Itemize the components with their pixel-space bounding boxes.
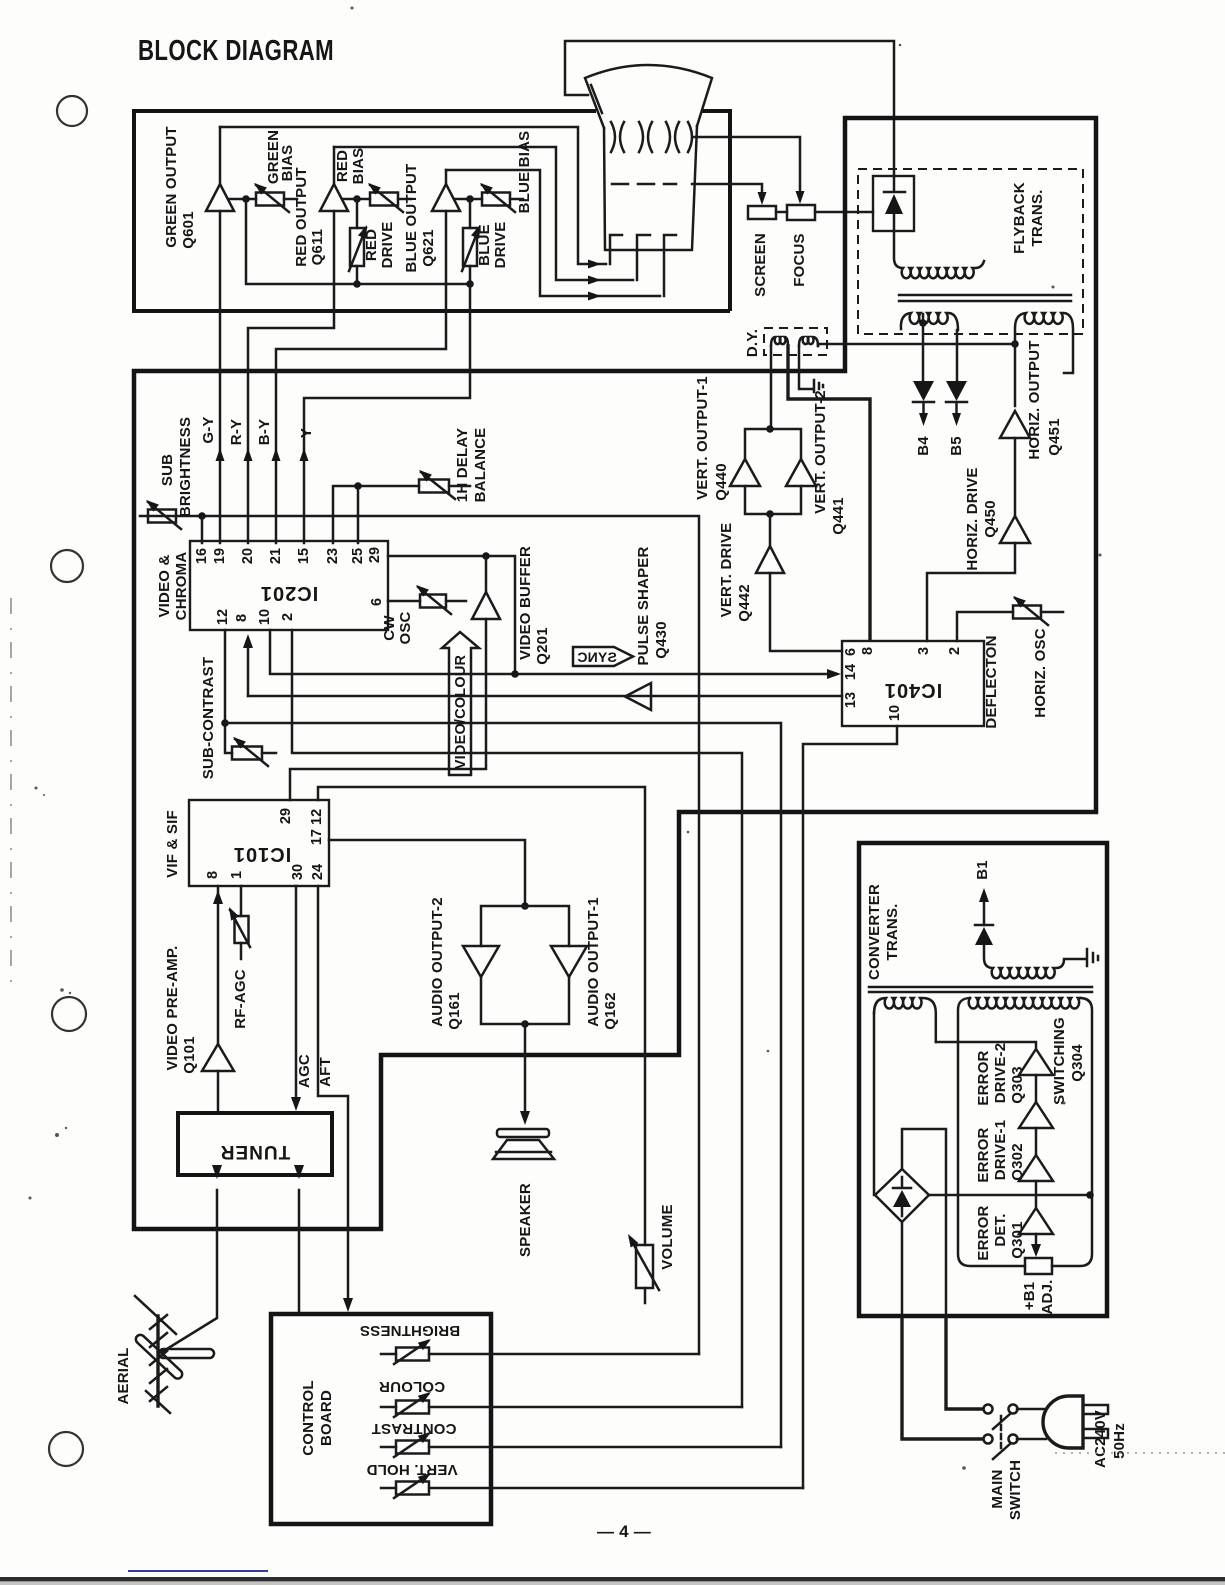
svg-text:AFT: AFT	[317, 1057, 334, 1087]
bridge rectifier diamond	[875, 1169, 929, 1222]
resistor VOLUME pot	[624, 1232, 659, 1303]
switch gang dashed link	[1000, 1416, 1003, 1451]
svg-text:Q621: Q621	[420, 229, 437, 267]
hole punch upper-middle	[51, 550, 83, 582]
svg-text:ERROR: ERROR	[975, 1127, 992, 1182]
wire to plug bottom	[1017, 1438, 1046, 1441]
coil flyback secondary right	[1015, 313, 1073, 373]
wire DY bus to flyback	[818, 343, 1015, 346]
svg-text:SWITCH: SWITCH	[1007, 1460, 1024, 1520]
wire flyback secondary to B5	[956, 330, 959, 380]
svg-text:SUB: SUB	[159, 454, 176, 486]
wire bridge right to feedback	[929, 1194, 1090, 1197]
node buffer top junction	[482, 552, 490, 560]
resistor SUB-CONTRAST pot	[230, 734, 276, 766]
svg-text:VERT. OUTPUT-2: VERT. OUTPUT-2	[812, 390, 829, 514]
svg-text:2: 2	[280, 613, 296, 621]
wire yoke-h right bus	[817, 344, 820, 346]
svg-text:6: 6	[369, 598, 385, 606]
wire IC101 pin8 input	[217, 886, 220, 1044]
aerial antenna symbol	[134, 1296, 214, 1413]
label AC240V 50Hz	[1092, 1410, 1128, 1468]
svg-text:12: 12	[215, 609, 231, 625]
label RED OUTPUT Q611	[293, 167, 326, 267]
scan artifact blue line bottom-left	[128, 1570, 268, 1572]
arrowhead aerial into tuner	[212, 1165, 222, 1179]
switch contact pair top	[984, 1405, 1018, 1430]
ground symbol yoke	[814, 380, 823, 392]
svg-text:ADJ.: ADJ.	[1039, 1280, 1056, 1315]
diode B1 rectifier	[975, 925, 993, 945]
svg-text:29: 29	[278, 808, 294, 824]
svg-text:IC401: IC401	[884, 679, 942, 701]
svg-text:VOLUME: VOLUME	[659, 1204, 676, 1269]
arrowhead AGC into tuner	[291, 1097, 301, 1111]
node audio input junction	[521, 902, 529, 910]
wire colour bus IC201 pin2	[292, 630, 742, 1407]
arrowhead into SCREEN	[758, 192, 767, 205]
svg-text:8: 8	[205, 871, 221, 879]
CRT internal dashed grid line	[612, 183, 676, 186]
amplifier Q201 VIDEO BUFFER	[472, 592, 500, 619]
svg-text:DRIVE: DRIVE	[492, 222, 509, 269]
svg-text:CONTRAST: CONTRAST	[372, 1420, 457, 1437]
amplifier Q450 HORIZ. DRIVE	[1000, 516, 1030, 543]
wire AC line 2	[902, 1316, 983, 1439]
wire AC line 1	[946, 1316, 983, 1409]
wire sub-brightness bus	[140, 516, 699, 1354]
svg-text:B1: B1	[974, 860, 991, 880]
hole punch top	[57, 96, 87, 126]
wire Q601 output up	[219, 127, 222, 184]
svg-text:— 4 —: — 4 —	[597, 1522, 651, 1541]
diode B4	[913, 381, 934, 426]
svg-text:24: 24	[310, 864, 326, 880]
resistor RF-AGC pot	[225, 886, 250, 959]
svg-text:B5: B5	[948, 436, 965, 456]
node vert output bottom	[766, 510, 774, 518]
wire IC201 pin29 to buffer	[388, 556, 515, 674]
svg-text:Q303: Q303	[1009, 1066, 1026, 1104]
wire audio top bar	[481, 906, 569, 946]
CRT flare outline	[585, 65, 712, 128]
svg-text:BLOCK DIAGRAM: BLOCK DIAGRAM	[138, 35, 334, 67]
arrowhead into IC201 pin8	[247, 640, 250, 696]
resistor BRIGHTNESS pot	[381, 1335, 699, 1364]
switch contact pair bottom	[984, 1435, 1018, 1460]
wire junction down to horiz output	[1014, 344, 1017, 406]
svg-text:Q301: Q301	[1009, 1221, 1026, 1259]
resistor 1H DELAY BALANCE pot	[416, 467, 470, 499]
svg-text:BALANCE: BALANCE	[472, 428, 489, 503]
svg-text:Q161: Q161	[446, 992, 463, 1030]
svg-text:ERROR: ERROR	[975, 1050, 992, 1105]
svg-text:BLUE BIAS: BLUE BIAS	[516, 131, 533, 214]
svg-text:BRIGHTNESS: BRIGHTNESS	[360, 1322, 460, 1339]
svg-text:Q201: Q201	[534, 627, 551, 665]
coil converter feedback winding	[969, 998, 1081, 1009]
arrowhead into speaker	[520, 1111, 530, 1125]
svg-text:FLYBACK: FLYBACK	[1011, 182, 1028, 254]
resistor SCREEN control	[748, 206, 776, 219]
svg-text:AUDIO OUTPUT-1: AUDIO OUTPUT-1	[585, 897, 602, 1026]
svg-text:BIAS: BIAS	[350, 148, 367, 185]
label RED DRIVE	[363, 222, 396, 269]
svg-text:VIDEO BUFFER: VIDEO BUFFER	[517, 546, 534, 660]
wire CRT screen line	[692, 184, 762, 196]
banner SYNC flag	[573, 647, 633, 666]
svg-text:B-Y: B-Y	[256, 419, 273, 445]
IC IC101	[189, 800, 329, 886]
node flyback horiz junction	[1011, 340, 1019, 348]
svg-text:Q430: Q430	[653, 621, 670, 659]
label ERROR DRIVE-1 Q302	[975, 1120, 1026, 1183]
label FLYBACK TRANS.	[1011, 182, 1046, 254]
resistor COLOUR pot	[381, 1388, 742, 1417]
wire primary left to bridge	[873, 1013, 876, 1195]
svg-text:B4: B4	[915, 436, 932, 456]
svg-text:10: 10	[257, 609, 273, 625]
wire IC101 pin17 to audio output	[329, 840, 525, 906]
wire Y	[304, 284, 470, 543]
wire tap to B4	[922, 314, 925, 380]
CONTROL BOARD box	[271, 1314, 491, 1524]
label ERROR DET. Q301	[975, 1205, 1026, 1260]
wire 1H delay bus	[333, 486, 419, 543]
svg-text:BOARD: BOARD	[318, 1390, 335, 1446]
wire Q101 input from tuner	[217, 1071, 220, 1113]
label ERROR DRIVE-2 Q303	[975, 1043, 1026, 1106]
amplifier Q162 AUDIO OUTPUT-1	[551, 946, 587, 977]
resistor GREEN BIAS pot	[251, 180, 297, 212]
wire Q601 tip to bias	[229, 198, 256, 201]
svg-text:AUDIO OUTPUT-2: AUDIO OUTPUT-2	[429, 897, 446, 1026]
node sync junction	[511, 670, 519, 678]
svg-text:SCREEN: SCREEN	[752, 233, 769, 297]
wire buffer output up	[485, 556, 488, 592]
wire Q611 tip to bias	[343, 198, 370, 201]
wire green feedback down	[246, 199, 470, 284]
wire G-Y	[219, 211, 222, 543]
amplifier Q621 BLUE OUTPUT	[432, 184, 460, 211]
wire vert drive input from IC401 pin6	[770, 573, 842, 651]
wire CRT grid to focus	[694, 137, 800, 197]
arrowhead Y	[300, 448, 309, 461]
wire sync bus IC201 pin10 to IC401 pin14	[270, 630, 836, 674]
svg-text:AC240V: AC240V	[1092, 1410, 1109, 1468]
diode EHT rectifier	[884, 176, 905, 231]
svg-text:CONTROL: CONTROL	[300, 1380, 317, 1456]
svg-text:IC101: IC101	[233, 843, 291, 865]
wire contrast bus	[225, 723, 781, 1447]
svg-text:Q441: Q441	[830, 497, 847, 535]
svg-text:VIDEO/COLOUR: VIDEO/COLOUR	[453, 654, 469, 769]
node pin16 junction	[198, 512, 206, 520]
resistor SUB BRIGHTNESS pot	[143, 497, 181, 529]
amplifier Q302 ERROR DRIVE-1	[1019, 1155, 1053, 1181]
coil converter primary	[874, 998, 936, 1042]
svg-text:Q601: Q601	[180, 211, 197, 249]
svg-text:VERT. HOLD: VERT. HOLD	[366, 1461, 457, 1478]
AC plug prong 2	[1083, 1429, 1108, 1438]
amplifier Q451 HORIZ. OUTPUT	[1000, 411, 1030, 438]
node red feedback bus	[353, 280, 361, 288]
label VIDEO BUFFER Q201	[517, 546, 551, 665]
svg-text:Q440: Q440	[713, 463, 730, 501]
TUNER box	[178, 1113, 332, 1175]
label GREEN OUTPUT Q601	[163, 126, 197, 249]
arrowhead green bus	[588, 260, 601, 269]
label HORIZ. OUTPUT Q451	[1026, 340, 1063, 459]
svg-text:GREEN OUTPUT: GREEN OUTPUT	[163, 126, 180, 248]
resistor BLUE DRIVE pot	[462, 199, 484, 284]
amplifier Q161 AUDIO OUTPUT-2	[463, 946, 499, 977]
scan artifact dotted line right	[1055, 1452, 1225, 1454]
wire Q450 input from IC401 pin3	[927, 543, 1015, 641]
label AUDIO OUTPUT-1 Q162	[585, 897, 619, 1029]
wire to speaker	[524, 1024, 527, 1118]
coil converter secondary top	[984, 945, 1086, 978]
wire feedback loop left side	[958, 998, 1025, 1266]
svg-text:Q611: Q611	[309, 229, 326, 266]
svg-text:CHROMA: CHROMA	[173, 552, 190, 621]
resistor CONTRAST pot	[381, 1428, 781, 1457]
label CONTROL BOARD	[300, 1380, 335, 1456]
wire green bus to CRT	[220, 127, 606, 264]
wire Q301 to Q302	[1035, 1181, 1038, 1208]
svg-text:Q450: Q450	[982, 500, 999, 538]
label VIDEO & CHROMA	[156, 552, 190, 621]
arrowhead R-Y	[244, 448, 253, 461]
svg-text:G-Y: G-Y	[200, 416, 217, 443]
wire bridge bottom to switch	[901, 1222, 904, 1316]
label VERT. DRIVE Q442	[718, 523, 753, 622]
svg-text:TUNER: TUNER	[220, 1141, 290, 1162]
svg-text:13: 13	[843, 692, 859, 708]
label 1H DELAY BALANCE	[454, 428, 489, 503]
svg-text:21: 21	[268, 548, 284, 564]
amplifier Q301 ERROR DET.	[1019, 1208, 1053, 1234]
svg-text:VIDEO PRE-AMP.: VIDEO PRE-AMP.	[164, 945, 181, 1070]
svg-text:BLUE OUTPUT: BLUE OUTPUT	[403, 164, 420, 273]
label VIDEO PRE-AMP. Q101	[164, 945, 198, 1073]
svg-text:AGC: AGC	[296, 1054, 313, 1088]
svg-text:VERT. OUTPUT-1: VERT. OUTPUT-1	[694, 376, 711, 500]
svg-text:1H DELAY: 1H DELAY	[454, 428, 471, 502]
label AUDIO OUTPUT-2 Q161	[429, 897, 463, 1029]
coil yoke vertical	[771, 337, 788, 346]
coil flyback EHT winding	[894, 231, 984, 278]
svg-text:DRIVE: DRIVE	[379, 222, 396, 269]
svg-text:DEFLECTON: DEFLECTON	[983, 635, 1000, 728]
svg-text:IC201: IC201	[260, 582, 318, 604]
amplifier pulse shaper Q430	[625, 683, 651, 710]
wire aerial to tuner	[162, 1190, 217, 1352]
diode B5	[946, 381, 967, 426]
wire audio bottom bar	[481, 977, 569, 1024]
flyback core lines	[899, 295, 1071, 301]
wire AGC IC101 pin30 to tuner	[295, 886, 298, 1105]
wire EHT anode line	[565, 41, 894, 176]
wire IC201 pin6 to CW OSC	[388, 600, 420, 603]
svg-text:HORIZ. OUTPUT: HORIZ. OUTPUT	[1026, 340, 1043, 459]
label HORIZ. DRIVE Q450	[964, 467, 999, 570]
resistor CW OSC pot	[413, 582, 466, 614]
svg-text:SPEAKER: SPEAKER	[517, 1183, 534, 1257]
node flyback tap B4	[919, 319, 927, 327]
arrowhead into IC401 pin14	[827, 669, 841, 679]
amplifier Q601 GREEN OUTPUT	[206, 184, 234, 211]
label BLUE BIAS	[516, 131, 533, 214]
node green feedback junction	[242, 195, 250, 203]
svg-text:Y: Y	[298, 428, 315, 438]
svg-text:RED: RED	[334, 150, 351, 182]
svg-text:OSC: OSC	[397, 611, 414, 644]
banner VIDEO/COLOUR arrow	[442, 632, 479, 775]
CRT gun pair 3	[666, 122, 679, 152]
diode EHT rectifier box	[873, 176, 914, 231]
amplifier Q304 SWITCHING	[1019, 1049, 1053, 1075]
label CONVERTER TRANS.	[866, 884, 901, 980]
wire sub-contrast bus IC201 pin12	[225, 630, 232, 753]
svg-text:20: 20	[240, 548, 256, 564]
svg-text:PULSE SHAPER: PULSE SHAPER	[635, 546, 652, 665]
svg-text:19: 19	[212, 548, 228, 564]
svg-text:DET.: DET.	[992, 1213, 1009, 1246]
scan artifact black band at page bottom	[0, 1577, 1225, 1582]
hole punch bottom	[49, 1432, 83, 1466]
arrowhead board into tuner	[294, 1165, 304, 1179]
node red drive junction	[353, 195, 361, 203]
wire yoke-v left to vert output	[770, 346, 773, 426]
label CW OSC	[381, 611, 414, 644]
resistor HORIZ. OSC pot	[1010, 593, 1063, 625]
label PULSE SHAPER Q430	[635, 546, 670, 665]
svg-text:VERT. DRIVE: VERT. DRIVE	[718, 523, 735, 618]
wire Q302 to Q303	[1035, 1128, 1038, 1155]
arrowhead into FOCUS	[796, 191, 805, 204]
CRT electrode pin 2	[637, 235, 650, 280]
CRT anode tick	[591, 85, 602, 113]
label GREEN BIAS	[265, 130, 296, 184]
wire primary right to switching	[936, 1042, 1036, 1049]
deflection yoke dashed box	[764, 328, 827, 355]
svg-text:TRANS.: TRANS.	[884, 903, 901, 960]
CRT electrode pin 3	[664, 235, 676, 296]
wire IC401 pin10 to vert hold	[803, 726, 897, 1488]
wire vert output top bar	[745, 429, 801, 459]
svg-text:TRANS.: TRANS.	[1029, 189, 1046, 246]
wire buffer input	[290, 619, 486, 800]
wire Q303 to Q304	[1035, 1075, 1038, 1102]
svg-text:Q304: Q304	[1069, 1044, 1086, 1082]
arrowhead red bus	[588, 276, 601, 285]
CRT neck	[604, 126, 697, 250]
svg-text:1: 1	[229, 871, 245, 879]
label +B1 ADJ.	[1021, 1280, 1056, 1315]
amplifier Q442 VERT. DRIVE	[756, 546, 784, 573]
svg-text:14: 14	[843, 664, 859, 680]
resistor VERT. HOLD pot	[381, 1469, 803, 1498]
svg-text:AERIAL: AERIAL	[115, 1347, 132, 1404]
svg-text:HORIZ. DRIVE: HORIZ. DRIVE	[964, 467, 981, 570]
svg-text:RF-AGC: RF-AGC	[232, 969, 249, 1029]
label RED BIAS	[334, 148, 367, 185]
svg-text:SUB-CONTRAST: SUB-CONTRAST	[200, 657, 217, 779]
wire bridge top loop	[902, 1129, 946, 1316]
wire blue bus to CRT	[446, 170, 660, 296]
label BLUE OUTPUT Q621	[403, 164, 437, 273]
svg-text:25: 25	[350, 548, 366, 564]
resistor +B1 ADJ	[1025, 1258, 1052, 1274]
wire Q611 output up	[333, 147, 336, 184]
svg-text:BRIGHTNESS: BRIGHTNESS	[177, 417, 194, 517]
node sub-contrast junction	[221, 719, 229, 727]
svg-text:COLOUR: COLOUR	[379, 1378, 445, 1395]
svg-text:D.Y.: D.Y.	[744, 329, 761, 357]
arrowhead into +B1 ADJ	[1035, 1234, 1038, 1250]
svg-text:15: 15	[296, 548, 312, 564]
resistor BLUE BIAS pot	[477, 180, 523, 212]
svg-text:3: 3	[916, 647, 932, 655]
svg-text:30: 30	[290, 864, 306, 880]
svg-text:SYNC: SYNC	[577, 649, 617, 665]
amplifier Q611 RED OUTPUT	[320, 184, 348, 211]
svg-text:Q442: Q442	[736, 584, 753, 622]
arrowhead blue bus	[588, 292, 601, 301]
svg-text:Q302: Q302	[1009, 1143, 1026, 1181]
label VERT. OUTPUT-2 Q441	[812, 390, 847, 535]
node blue drive junction	[466, 195, 474, 203]
wire yoke-h left to ground	[799, 346, 813, 389]
AC plug body	[1043, 1396, 1083, 1448]
IC IC201	[190, 541, 388, 630]
label SWITCHING Q304	[1051, 1017, 1086, 1105]
svg-text:RED: RED	[363, 229, 380, 261]
wire IC101 pin12 audio to volume	[318, 787, 645, 1245]
svg-text:R-Y: R-Y	[228, 419, 245, 445]
scan artifact dashed margin line	[10, 598, 12, 988]
svg-text:HORIZ. OSC: HORIZ. OSC	[1032, 628, 1049, 718]
svg-text:FOCUS: FOCUS	[791, 233, 808, 287]
wire Q621 tip to bias	[455, 198, 482, 201]
svg-text:Q162: Q162	[602, 992, 619, 1030]
svg-text:MAIN: MAIN	[989, 1469, 1006, 1508]
wire feedback loop right side	[1052, 998, 1092, 1266]
svg-text:+B1: +B1	[1021, 1282, 1038, 1311]
wire yoke-v right to IC401 pin8	[788, 346, 870, 639]
amplifier Q441 VERT. OUTPUT-2	[786, 459, 816, 486]
diode inside bridge	[893, 1177, 911, 1216]
svg-text:CW: CW	[381, 615, 398, 641]
svg-text:29: 29	[367, 547, 383, 563]
wire vert output bottom bar	[745, 486, 801, 514]
coil flyback secondary left	[901, 313, 958, 330]
CRT gun 4 electrode	[688, 122, 692, 152]
svg-text:ERROR: ERROR	[975, 1205, 992, 1260]
svg-text:BLUE: BLUE	[476, 224, 493, 266]
amplifier Q101 VIDEO PRE-AMP	[202, 1044, 234, 1071]
amplifier Q440 VERT. OUTPUT-1	[730, 459, 760, 486]
svg-text:DRIVE-1: DRIVE-1	[992, 1120, 1009, 1181]
svg-text:VIF & SIF: VIF & SIF	[164, 810, 181, 878]
label VERT. OUTPUT-1 Q440	[694, 376, 730, 501]
main circuit box border	[134, 118, 1096, 1229]
amplifier Q303 ERROR DRIVE-2	[1019, 1102, 1053, 1128]
label MAIN SWITCH	[989, 1460, 1024, 1520]
svg-text:2: 2	[947, 647, 963, 655]
speaker symbol	[493, 1129, 554, 1159]
